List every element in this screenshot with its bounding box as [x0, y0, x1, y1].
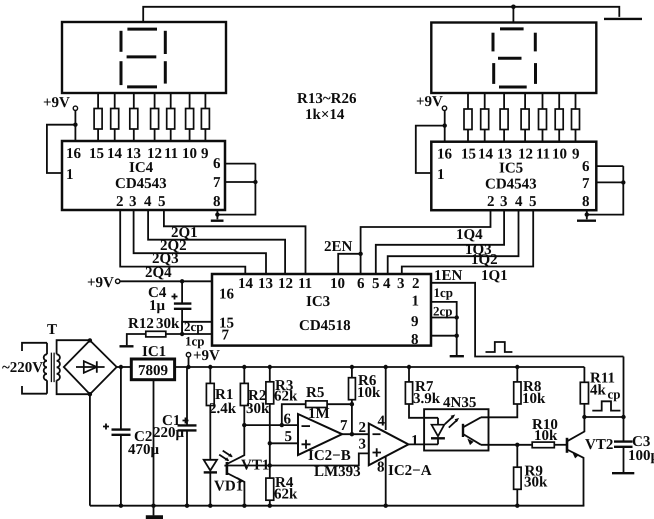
svg-text:7: 7 — [222, 328, 230, 344]
svg-text:6: 6 — [582, 159, 590, 175]
svg-text:2cp: 2cp — [433, 304, 453, 319]
svg-text:2EN: 2EN — [324, 239, 353, 255]
wire net 1Q3 — [376, 210, 504, 274]
wire net 2Q4 — [120, 210, 245, 274]
capacitor C2 470u — [120, 367, 122, 429]
svg-text:7: 7 — [213, 175, 221, 191]
resistor R6 10k — [351, 367, 353, 378]
svg-text:IC2−A: IC2−A — [388, 463, 432, 479]
display DS1 (left 7-segment) — [62, 22, 226, 93]
svg-text:10k: 10k — [534, 428, 558, 444]
svg-text:T: T — [47, 322, 57, 338]
resistor R10 10k — [532, 442, 554, 448]
wire net 1Q4 — [361, 210, 491, 274]
svg-text:4: 4 — [383, 276, 391, 292]
svg-text:11: 11 — [298, 276, 312, 292]
svg-text:2: 2 — [116, 194, 124, 210]
capacitor C3 100p — [623, 417, 625, 441]
resistor R7 3.9k — [408, 367, 410, 382]
svg-text:10: 10 — [182, 146, 197, 162]
svg-text:3: 3 — [500, 194, 508, 210]
ground top right — [604, 18, 642, 20]
svg-text:16: 16 — [219, 287, 235, 303]
svg-text:62k: 62k — [274, 389, 298, 405]
wire net 2Q1 — [164, 210, 306, 274]
wire IC2-A output pin1 — [408, 443, 438, 445]
svg-text:+9V: +9V — [193, 348, 220, 364]
node display common junction — [511, 5, 516, 10]
svg-text:10k: 10k — [357, 385, 381, 401]
svg-text:470μ: 470μ — [128, 442, 160, 458]
resistor R9 30k — [516, 445, 518, 467]
svg-text:1: 1 — [412, 294, 420, 310]
resistor R5 1M — [282, 404, 306, 425]
wire IC2-A pin4 to +9V — [385, 367, 387, 430]
wire 4N35 emitter node — [481, 444, 532, 446]
svg-text:15: 15 — [461, 147, 476, 163]
display DS2 (right 7-segment) — [431, 23, 596, 94]
power +9V rail — [174, 366, 584, 368]
svg-text:7809: 7809 — [138, 363, 168, 379]
wire bridge + output — [117, 366, 132, 368]
svg-text:11: 11 — [536, 147, 550, 163]
wire net 2EN spur — [338, 254, 360, 274]
wire VT2 collector node — [584, 357, 623, 418]
svg-text:IC5: IC5 — [499, 161, 523, 177]
svg-text:R13~R26: R13~R26 — [297, 91, 357, 107]
svg-text:2Q4: 2Q4 — [145, 265, 172, 281]
svg-text:R12: R12 — [128, 316, 154, 332]
svg-text:12: 12 — [278, 276, 293, 292]
svg-text:3: 3 — [129, 194, 137, 210]
svg-text:CD4518: CD4518 — [299, 318, 351, 334]
svg-text:3.9k: 3.9k — [413, 391, 441, 407]
svg-text:IC4: IC4 — [129, 160, 154, 176]
ground R12 — [120, 345, 134, 347]
svg-text:4: 4 — [378, 414, 386, 430]
wire IC2-A pin8 to ground — [385, 457, 387, 506]
wire node pin5 line — [270, 442, 298, 444]
svg-text:1EN: 1EN — [434, 268, 463, 284]
svg-text:4: 4 — [515, 194, 523, 210]
svg-text:8: 8 — [377, 460, 385, 476]
svg-text:5: 5 — [158, 194, 166, 210]
wire 7809 ground lead — [153, 380, 155, 506]
svg-text:10: 10 — [330, 276, 345, 292]
svg-text:3: 3 — [359, 437, 367, 453]
IC U-IC3 CD4518 — [212, 274, 431, 348]
wire ground rail bottom — [90, 505, 585, 507]
svg-text:220μ: 220μ — [153, 425, 185, 441]
diode VD1 LED — [204, 460, 243, 508]
svg-text:5: 5 — [372, 276, 380, 292]
svg-text:LM393: LM393 — [314, 464, 361, 480]
wire top common rail — [143, 7, 619, 22]
svg-text:VD1: VD1 — [214, 479, 243, 495]
wire IC3 pin15 stub — [182, 322, 212, 334]
op-amp IC2-B LM393 — [284, 412, 361, 481]
svg-text:16: 16 — [66, 146, 82, 162]
svg-text:14: 14 — [478, 147, 494, 163]
svg-text:30k: 30k — [524, 475, 548, 491]
svg-text:1Q4: 1Q4 — [456, 227, 483, 243]
svg-text:cp: cp — [608, 387, 621, 402]
transistor VT2 — [554, 417, 613, 506]
svg-text:1μ: 1μ — [149, 298, 166, 314]
waveform pulse near IC3 — [486, 342, 513, 352]
svg-text:15: 15 — [89, 146, 104, 162]
svg-text:1Q1: 1Q1 — [481, 268, 508, 284]
capacitor C1 220u — [186, 367, 188, 425]
wire net 1cp from IC3 pin2 — [431, 283, 624, 357]
wire +9V to IC5 pin16 and pin1 — [416, 111, 445, 174]
svg-text:2: 2 — [359, 420, 367, 436]
svg-text:CD4543: CD4543 — [115, 176, 167, 192]
ground C3 — [612, 472, 634, 474]
wire IC5 pins6-7 tie — [587, 166, 624, 219]
wire bridge - output — [89, 394, 91, 506]
svg-text:1cp: 1cp — [185, 334, 205, 349]
svg-text:7: 7 — [340, 418, 348, 434]
svg-text:2: 2 — [412, 276, 420, 292]
wire +9V to IC4 pin16 and pin1 — [47, 111, 76, 174]
svg-text:30k: 30k — [156, 316, 180, 332]
svg-text:8: 8 — [582, 194, 590, 210]
resistor R8 10k — [516, 367, 518, 382]
transistor VT1 photo — [219, 425, 269, 508]
svg-text:VT2: VT2 — [585, 437, 613, 453]
svg-text:1: 1 — [66, 167, 74, 183]
svg-text:13: 13 — [258, 276, 273, 292]
wire net 1Q2 — [388, 210, 519, 274]
svg-text:3: 3 — [397, 276, 405, 292]
svg-text:7: 7 — [582, 176, 590, 192]
wire +9V to IC3 pin16 — [120, 280, 212, 282]
wire IC3 pin7 line — [166, 333, 212, 335]
bridge rectifier — [64, 338, 117, 396]
svg-text:+9V: +9V — [43, 95, 70, 111]
svg-text:16: 16 — [437, 147, 453, 163]
svg-text:14: 14 — [238, 276, 254, 292]
wire IC2-B output to IC2-A — [342, 433, 369, 435]
resistor R11 4k — [583, 367, 585, 382]
svg-text:8: 8 — [411, 332, 419, 348]
svg-text:R5: R5 — [306, 385, 324, 401]
IC U-IC5 CD4543 — [431, 142, 596, 211]
svg-text:9: 9 — [572, 147, 580, 163]
svg-text:14: 14 — [107, 146, 123, 162]
svg-text:6: 6 — [357, 276, 365, 292]
wire net 2Q3 — [134, 210, 266, 274]
resistor R4 62k — [266, 478, 274, 500]
resistor R12 30k — [146, 331, 166, 337]
ground IC5 pin8 — [577, 219, 596, 221]
svg-text:6: 6 — [213, 156, 221, 172]
svg-text:IC3: IC3 — [306, 294, 330, 310]
svg-text:1cp: 1cp — [434, 285, 454, 300]
svg-text:1: 1 — [437, 167, 445, 183]
svg-text:2cp: 2cp — [184, 319, 204, 334]
svg-text:62k: 62k — [274, 487, 298, 503]
svg-text:4k: 4k — [590, 383, 607, 399]
svg-text:2: 2 — [487, 194, 495, 210]
op-amp IC2-A LM393 — [359, 414, 432, 480]
svg-text:11: 11 — [164, 146, 178, 162]
waveform pulse near R11 — [592, 401, 620, 410]
power +9V terminal mid — [186, 353, 190, 357]
resistor R1 2.4k — [209, 367, 211, 383]
svg-text:6: 6 — [284, 412, 292, 428]
svg-text:+9V: +9V — [87, 275, 114, 291]
svg-text:10k: 10k — [522, 391, 546, 407]
svg-text:IC2−B: IC2−B — [308, 448, 351, 464]
svg-text:+9V: +9V — [416, 94, 443, 110]
resistor R3 62k — [269, 367, 271, 382]
capacitor C4 1u — [181, 281, 183, 303]
resistor array R13-R19 (left) — [94, 93, 209, 141]
svg-text:~220V: ~220V — [2, 360, 43, 376]
IC U-IC4 CD4543 — [62, 141, 225, 210]
svg-text:1: 1 — [411, 433, 419, 449]
svg-text:100p: 100p — [628, 448, 654, 464]
svg-text:9: 9 — [201, 146, 209, 162]
ground IC4 pin8 — [211, 219, 224, 221]
wire IC4 pins6-7 tie — [217, 164, 255, 220]
ground IC3 — [450, 355, 464, 357]
svg-text:5: 5 — [529, 194, 537, 210]
svg-text:1k×14: 1k×14 — [305, 107, 345, 123]
resistor R2 30k — [243, 367, 245, 383]
wire node base line to pin3 — [227, 453, 369, 465]
svg-text:10: 10 — [552, 147, 567, 163]
wire IC3 pin1 pin9 pin8 to ground — [431, 302, 457, 355]
wire net 2Q2 — [148, 210, 285, 274]
ground main — [153, 506, 155, 516]
svg-text:4: 4 — [144, 194, 152, 210]
resistor array R20-R26 (right) — [464, 93, 580, 142]
svg-text:8: 8 — [213, 194, 221, 210]
svg-text:9: 9 — [411, 314, 419, 330]
svg-text:CD4543: CD4543 — [485, 177, 537, 193]
wire node pin6 line — [244, 424, 298, 426]
svg-text:5: 5 — [285, 429, 293, 445]
optocoupler 4N35 — [424, 395, 488, 451]
wire right display common drop — [512, 7, 514, 23]
svg-text:2.4k: 2.4k — [209, 401, 237, 417]
wire net 1Q1 — [402, 210, 533, 274]
